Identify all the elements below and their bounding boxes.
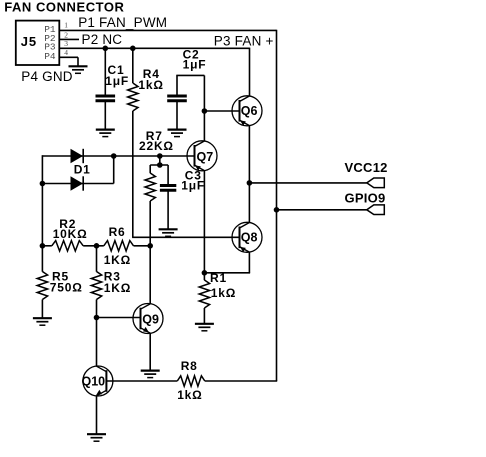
node Q8 emitter/R1 junction — [202, 270, 208, 276]
svg-text:P4: P4 — [44, 51, 56, 62]
ground R5 — [33, 318, 52, 325]
node C2/Q6 base/Q7 collector junction — [202, 108, 208, 114]
svg-text:1KΩ: 1KΩ — [104, 281, 131, 295]
svg-text:P4 GND: P4 GND — [21, 69, 73, 84]
svg-text:1kΩ: 1kΩ — [138, 78, 163, 92]
capacitor C2 — [167, 96, 187, 101]
wire D1 cathode to Q7 base — [114, 155, 195, 157]
value R4 1kOhm — [138, 78, 163, 92]
net label P3 FAN + — [214, 34, 274, 49]
transistor Q6 — [232, 96, 262, 126]
wire Q9 emitter down — [149, 333, 151, 370]
label Q10 — [82, 375, 106, 389]
port GPIO9 tag — [367, 205, 385, 215]
svg-text:2: 2 — [64, 30, 68, 39]
transistor Q10 — [83, 366, 113, 396]
wire D1 cathode riser — [113, 155, 115, 183]
wire Q10 emitter down — [96, 396, 98, 434]
value R1 1kOhm — [211, 286, 236, 300]
svg-text:GPIO9: GPIO9 — [345, 190, 386, 205]
resistor R7 — [145, 173, 155, 201]
svg-text:Q8: Q8 — [241, 231, 258, 245]
ground C3 — [159, 229, 178, 236]
wire R2 left lead — [42, 245, 51, 247]
wire Q7 emitter down — [203, 170, 205, 272]
wire Q8 emitter down — [204, 252, 250, 273]
label R1 — [210, 271, 227, 285]
label Q6 — [241, 104, 258, 118]
svg-text:1: 1 — [64, 21, 68, 30]
pin number 4 — [64, 48, 68, 57]
wire Q10 base to R8 — [106, 380, 177, 382]
resistor R4 — [128, 83, 138, 111]
value R7 22KOhm — [139, 139, 174, 153]
node R6/R7/Q9 collector junction — [147, 243, 153, 249]
label C2 — [183, 47, 200, 61]
label R7 — [146, 129, 163, 143]
wire R5 top lead — [41, 246, 43, 272]
transistor Q9 — [133, 304, 163, 334]
label R5 — [52, 270, 69, 284]
connector J5 pin name P3 — [44, 42, 56, 53]
transistor Q8 — [232, 222, 262, 252]
label Q9 — [142, 313, 159, 327]
wire C1 top — [104, 48, 106, 95]
ground C2 — [168, 130, 187, 137]
node R7/C3 top junction — [157, 162, 163, 168]
ground Q10 — [87, 434, 106, 441]
svg-text:Q9: Q9 — [142, 313, 159, 327]
wire R1 top lead — [203, 273, 205, 280]
net label P1 FAN_PWM — [78, 15, 167, 30]
svg-text:750Ω: 750Ω — [50, 281, 83, 295]
wire D1 lower row — [42, 183, 113, 185]
svg-text:P3 FAN +: P3 FAN + — [214, 34, 274, 49]
capacitor C1 — [96, 96, 116, 101]
wire VCC12 — [249, 182, 366, 184]
svg-text:P2 NC: P2 NC — [82, 32, 123, 47]
svg-text:R1: R1 — [210, 271, 227, 285]
wire R7 C3 top bar — [150, 164, 168, 166]
label D1 — [74, 163, 91, 177]
svg-text:1KΩ: 1KΩ — [104, 253, 131, 267]
transistor Q7 — [187, 141, 217, 171]
svg-text:3: 3 — [64, 39, 68, 48]
label Q7 — [197, 150, 214, 164]
svg-text:Q7: Q7 — [197, 150, 214, 164]
connector J5 pin name P2 — [44, 33, 56, 44]
svg-text:FAN CONNECTOR: FAN CONNECTOR — [4, 0, 124, 15]
svg-text:1μF: 1μF — [105, 74, 129, 88]
node R2 left junction — [40, 243, 46, 249]
net label VCC12 — [345, 160, 388, 175]
wire P2 NC stub — [59, 38, 79, 40]
wire R5 bottom lead — [41, 300, 43, 319]
wire R3 bottom lead — [96, 300, 98, 318]
resistor R1 — [199, 280, 209, 308]
wire R3 top lead — [96, 246, 98, 272]
svg-text:VCC12: VCC12 — [345, 160, 388, 175]
wire Q9 collector up — [149, 246, 151, 304]
wire C3 bottom lead — [167, 192, 169, 230]
node D1 cathode junction — [111, 153, 117, 159]
svg-text:10KΩ: 10KΩ — [53, 227, 88, 241]
value R3 1KOhm — [104, 281, 131, 295]
resistor R6 — [104, 241, 134, 251]
label R3 — [104, 270, 121, 284]
label R4 — [143, 67, 160, 81]
wire P1 FAN_PWM horizontal — [59, 29, 276, 31]
svg-text:1kΩ: 1kΩ — [211, 286, 236, 300]
svg-text:J5: J5 — [21, 34, 37, 49]
ground J5 pin4 — [69, 66, 88, 73]
svg-text:1kΩ: 1kΩ — [177, 388, 202, 402]
wire D1 anode column — [41, 155, 43, 246]
value R6 1KOhm — [104, 253, 131, 267]
wire GPIO9 — [277, 209, 367, 211]
wire Q9 base — [97, 317, 141, 319]
wire R3 node down to Q10 collector — [96, 318, 98, 367]
wire R4 bottom to Q8 base row — [132, 111, 134, 237]
resistor R2 — [52, 241, 83, 251]
net label GPIO9 — [345, 190, 386, 205]
svg-text:1μF: 1μF — [183, 58, 207, 72]
wire R1 bottom lead — [203, 308, 205, 324]
label C3 — [185, 169, 202, 183]
node VCC12 junction — [247, 180, 253, 186]
svg-text:Q10: Q10 — [82, 375, 106, 389]
port VCC12 tag — [367, 178, 385, 188]
pin number 3 — [64, 39, 68, 48]
wire C3 top lead — [167, 165, 169, 184]
ground Q9 — [141, 371, 160, 378]
wire R2 to R6 — [83, 245, 104, 247]
svg-text:4: 4 — [64, 48, 68, 57]
wire Q6 base — [204, 110, 239, 112]
node P3/R4 junction — [130, 46, 136, 52]
diode D1 lower element — [71, 176, 84, 190]
connector J5 pin name P4 — [44, 51, 56, 62]
node D1 lower anode junction — [40, 181, 46, 187]
svg-text:1μF: 1μF — [181, 179, 205, 193]
value R8 1kOhm — [177, 388, 202, 402]
svg-text:Q6: Q6 — [241, 104, 258, 118]
label R8 — [181, 359, 198, 373]
node R3/Q9 base/Q10 junction — [94, 315, 100, 321]
wire P4 to ground — [59, 57, 78, 66]
wire R7 top lead — [149, 165, 151, 173]
wire R6 right lead — [134, 245, 151, 247]
wire Q6 emitter down — [248, 126, 250, 183]
label R2 — [59, 217, 76, 231]
node P3/C1 junction — [103, 46, 109, 52]
ground C1 — [96, 130, 115, 137]
diode D1 upper element — [71, 149, 84, 163]
svg-text:P1 FAN_PWM: P1 FAN_PWM — [78, 15, 167, 30]
wire P1 FAN_PWM vertical right side — [276, 30, 278, 381]
wire R7 bottom to R6 junction — [149, 201, 151, 246]
value C2 1uF — [183, 58, 207, 72]
svg-text:R8: R8 — [181, 359, 198, 373]
pin number 1 — [64, 21, 68, 30]
connector J5 pin name P1 — [44, 24, 56, 35]
value C3 1uF — [181, 179, 205, 193]
wire D1 upper row — [42, 155, 113, 157]
connector J5 body — [16, 21, 60, 65]
wire C2 bottom — [176, 102, 178, 130]
node GPIO9 junction — [274, 207, 280, 213]
value R5 750Ohm — [50, 281, 83, 295]
resistor R8 — [177, 376, 205, 386]
wire P3 FAN+ horizontal — [59, 47, 249, 49]
wire C2 top route — [176, 75, 204, 111]
value C1 1uF — [105, 74, 129, 88]
net label P4 GND — [21, 69, 73, 84]
svg-text:D1: D1 — [74, 163, 91, 177]
wire R4 top — [132, 48, 134, 83]
wire P3 FAN+ down to Q6 collector — [249, 48, 251, 97]
wire Q8 collector up — [248, 183, 250, 223]
svg-text:R6: R6 — [109, 225, 126, 239]
label C1 — [108, 63, 125, 77]
svg-text:22KΩ: 22KΩ — [139, 139, 174, 153]
resistor R3 — [91, 272, 101, 300]
label Q8 — [241, 231, 258, 245]
title FAN CONNECTOR — [4, 0, 124, 15]
wire Q7 collector up — [203, 111, 205, 141]
wire R4 corner to Q8 base — [132, 236, 240, 238]
resistor R5 — [37, 272, 47, 300]
wire R7 stub — [159, 156, 161, 165]
net label P2 NC — [82, 32, 123, 47]
node R2/R6/R3 junction — [94, 243, 100, 249]
capacitor C3 — [160, 186, 176, 191]
wire R8 to PWM net — [205, 380, 277, 382]
pin number 2 — [64, 30, 68, 39]
ground R1 — [195, 324, 214, 331]
label R6 — [109, 225, 126, 239]
connector J5 refdes — [21, 34, 37, 49]
wire C1 bottom — [104, 102, 106, 130]
value R2 10KOhm — [53, 227, 88, 241]
node R7 stub top junction — [157, 153, 163, 159]
